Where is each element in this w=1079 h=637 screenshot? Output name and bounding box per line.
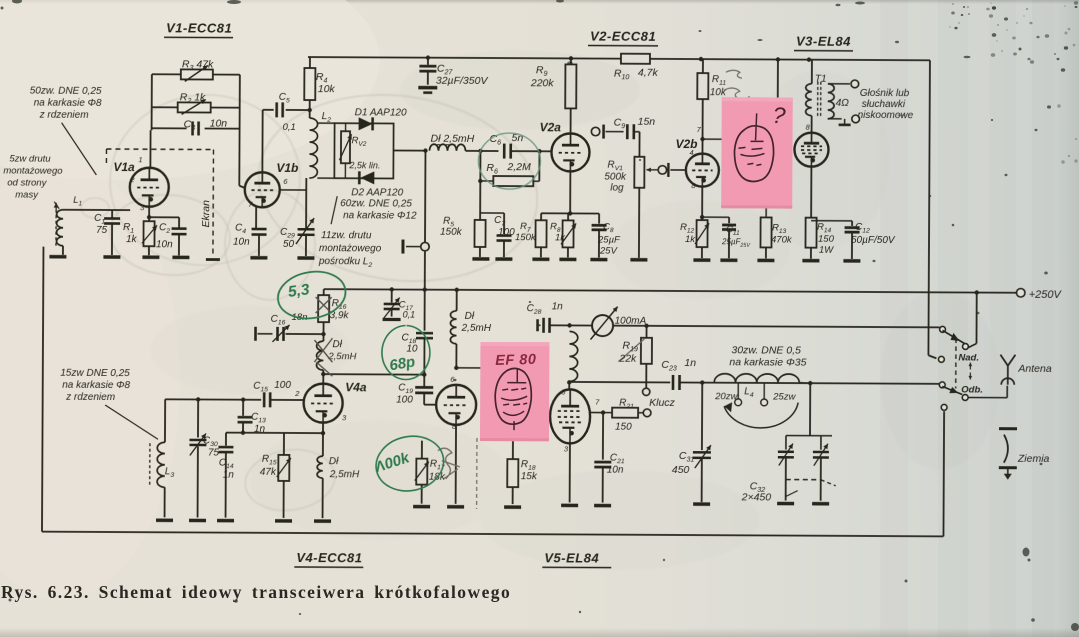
svg-text:Dł 2,5mH: Dł 2,5mH [431,133,475,145]
svg-text:V2-ECC81: V2-ECC81 [590,29,656,44]
svg-text:10n: 10n [233,237,250,248]
svg-text:na karkasie Φ8: na karkasie Φ8 [62,380,130,391]
svg-text:150: 150 [615,422,632,433]
svg-text:5,3: 5,3 [287,281,311,301]
svg-text:4,7k: 4,7k [638,67,659,79]
svg-text:V5-EL84: V5-EL84 [544,550,599,565]
svg-text:V1-ECC81: V1-ECC81 [166,20,232,35]
svg-text:25zw: 25zw [772,391,796,402]
svg-text:4: 4 [689,148,693,157]
svg-text:Dł: Dł [465,311,475,322]
svg-text:11zw. drutu: 11zw. drutu [321,230,372,241]
svg-text:150k: 150k [515,232,537,243]
svg-text:60zw. DNE 0,25: 60zw. DNE 0,25 [340,198,412,209]
svg-text:50zw. DNE 0,25: 50zw. DNE 0,25 [30,86,102,97]
svg-text:montażowego: montażowego [3,165,62,176]
svg-text:EF 80: EF 80 [495,352,537,369]
svg-text:2×450: 2×450 [741,491,772,503]
svg-text:Antena: Antena [1017,363,1052,375]
svg-text:1n: 1n [254,424,266,435]
svg-text:32µF/350V: 32µF/350V [436,75,489,87]
svg-text:15zw DNE 0,25: 15zw DNE 0,25 [60,368,130,379]
svg-text:30zw. DNE 0,5: 30zw. DNE 0,5 [731,344,801,356]
svg-text:V4a: V4a [345,380,367,394]
svg-text:150k: 150k [440,227,463,238]
svg-text:V1b: V1b [276,161,298,175]
svg-text:1W: 1W [819,245,834,256]
svg-text:10n: 10n [210,118,228,130]
svg-text:1k: 1k [555,232,566,243]
svg-text:1k: 1k [685,234,696,245]
svg-text:10k: 10k [710,87,727,98]
svg-text:Głośnik lub: Głośnik lub [860,88,910,99]
svg-text:Odb.: Odb. [961,384,983,395]
svg-text:+250V: +250V [1029,289,1063,301]
svg-text:niskoomowe: niskoomowe [858,110,914,121]
svg-text:na karkasie Φ12: na karkasie Φ12 [343,210,417,221]
svg-text:15k: 15k [521,471,538,482]
svg-text:2,5k lin.: 2,5k lin. [348,160,380,170]
svg-text:Dł: Dł [329,456,339,467]
svg-text:100: 100 [274,380,291,391]
svg-text:500k: 500k [604,172,627,183]
svg-text:2,5mH: 2,5mH [461,323,492,334]
svg-text:log: log [610,183,624,194]
svg-text:50: 50 [283,239,295,250]
svg-text:na karkasie Φ8: na karkasie Φ8 [34,98,102,109]
svg-text:z rdzeniem: z rdzeniem [65,392,115,403]
svg-text:Ziemia: Ziemia [1017,453,1050,465]
svg-text:22k: 22k [618,353,637,365]
svg-text:Dł: Dł [332,339,342,350]
svg-text:50µF/50V: 50µF/50V [851,235,896,246]
svg-text:220k: 220k [530,77,555,89]
svg-text:od strony: od strony [7,177,47,188]
svg-text:1n: 1n [552,301,564,312]
svg-text:10n: 10n [607,465,624,476]
svg-text:D1 AAP120: D1 AAP120 [355,107,407,118]
svg-text:1: 1 [138,155,142,164]
svg-text:47k: 47k [260,467,277,478]
svg-text:V4-ECC81: V4-ECC81 [296,550,362,565]
svg-text:10n: 10n [156,239,173,250]
svg-text:450: 450 [672,464,690,476]
svg-text:Nad.: Nad. [958,352,979,363]
svg-text:100mA: 100mA [615,316,647,327]
svg-text:4Ω: 4Ω [836,98,850,109]
svg-text:75: 75 [208,448,220,459]
svg-text:R3 47k: R3 47k [182,58,214,72]
svg-text:R2 1k: R2 1k [180,91,206,105]
svg-text:15n: 15n [638,116,656,128]
svg-text:2: 2 [294,389,300,398]
svg-text:V3-EL84: V3-EL84 [796,34,851,49]
svg-text:na karkasie Φ35: na karkasie Φ35 [729,356,806,368]
svg-text:T1: T1 [815,74,827,85]
svg-text:V2a: V2a [540,120,562,134]
svg-text:25V: 25V [599,246,619,257]
svg-text:5zw drutu: 5zw drutu [9,153,51,164]
svg-text:25µF: 25µF [597,235,621,246]
svg-text:100: 100 [498,227,515,238]
svg-text:2,5mH: 2,5mH [329,469,360,480]
svg-text:1k: 1k [126,234,138,245]
svg-text:montażowego: montażowego [319,243,382,254]
svg-text:1n: 1n [223,470,235,481]
svg-text:0,1: 0,1 [403,310,416,320]
svg-text:masy: masy [15,190,39,201]
svg-text:Ekran: Ekran [200,200,212,228]
svg-text:pośrodku L2: pośrodku L2 [318,256,373,269]
svg-text:V1a: V1a [113,160,135,174]
svg-text:D2 AAP120: D2 AAP120 [351,187,403,198]
svg-text:150: 150 [818,234,835,245]
svg-text:V2b: V2b [675,137,697,151]
svg-text:100: 100 [396,395,413,406]
svg-text:470k: 470k [771,234,793,245]
svg-text:słuchawki: słuchawki [862,99,906,110]
svg-text:z rdzeniem: z rdzeniem [39,110,89,121]
svg-text:1n: 1n [684,357,696,369]
svg-text:2,2M: 2,2M [506,161,531,173]
svg-text:Klucz: Klucz [649,397,675,409]
svg-text:2: 2 [129,175,135,184]
svg-text:20zw: 20zw [714,391,738,402]
svg-text:75: 75 [96,225,108,236]
svg-text:Rys. 6.23. Schemat ideowy: Rys. 6.23. Schemat ideowy transceiwera k… [1,582,511,602]
svg-text:10k: 10k [318,83,336,95]
svg-text:0,1: 0,1 [283,122,296,133]
